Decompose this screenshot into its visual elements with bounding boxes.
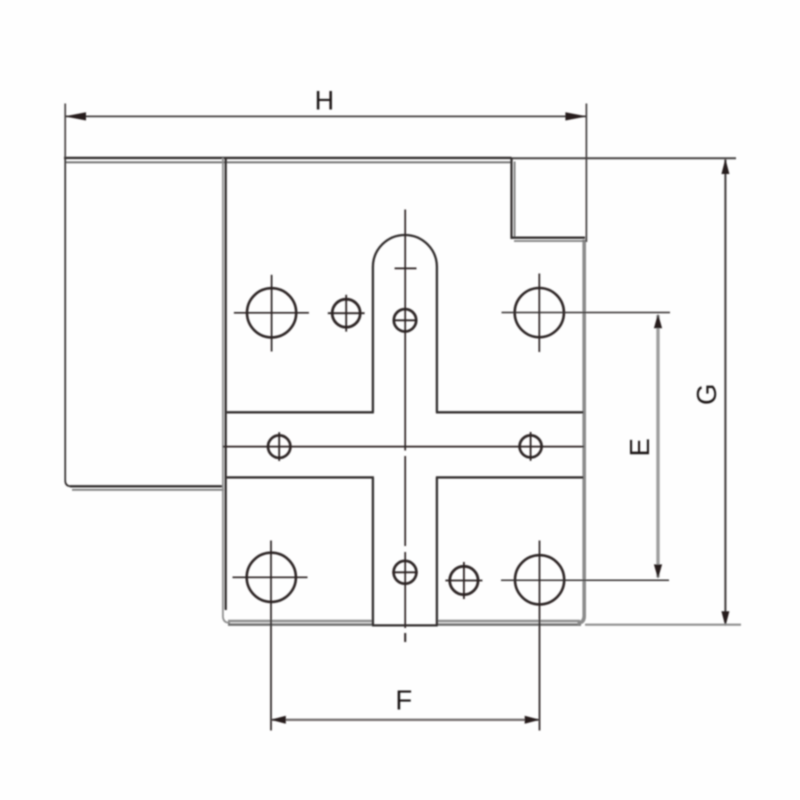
flange bottom edge	[70, 486, 224, 490]
svg-text:F: F	[395, 685, 412, 716]
vertical centerline of slot	[404, 210, 406, 643]
plate right edge	[578, 240, 585, 623]
hole BL vertical centerline + F left extension	[270, 541, 272, 731]
H label	[315, 86, 335, 116]
tongue bottom edge	[372, 624, 438, 626]
F dimension line	[271, 716, 540, 724]
E label	[624, 438, 655, 456]
central slot top arc	[373, 235, 437, 267]
top-right notch bottom edge	[511, 238, 586, 241]
small hole S4 (on centerline, lower)	[392, 561, 417, 584]
small hole S2 (band, left)	[268, 432, 290, 461]
cross band top edge	[227, 411, 584, 413]
small hole S1 (on centerline, upper)	[393, 309, 416, 331]
hole BR (large)	[515, 555, 564, 604]
G top extension line	[512, 157, 737, 159]
svg-text:E: E	[624, 438, 655, 456]
G label	[691, 384, 722, 405]
hole TL (large)	[234, 275, 309, 352]
hole BR vertical centerline + F right extension	[539, 541, 541, 731]
top-right notch left edge	[512, 158, 515, 239]
washer hole W2 (lower, right of slot)	[445, 562, 482, 599]
svg-text:G: G	[691, 384, 722, 405]
hole BL (large)	[233, 553, 308, 602]
H right extension line	[585, 104, 587, 243]
washer hole W1 (upper, next to slot)	[328, 295, 365, 332]
small hole S3 (band, right)	[520, 432, 542, 461]
flange left edge	[65, 158, 71, 486]
hole TR (large)	[515, 274, 564, 353]
G bottom extension line	[585, 624, 741, 626]
cross band bottom edge	[227, 476, 584, 478]
hole TR horizontal centerline + E top extension	[502, 312, 671, 314]
main plate left edge	[223, 158, 230, 623]
svg-text:H: H	[315, 86, 335, 116]
plate top edge	[64, 158, 512, 162]
H dimension line	[65, 112, 587, 120]
central slot left edge	[372, 267, 374, 626]
G dimension line	[721, 159, 729, 627]
E dimension line	[654, 314, 662, 579]
slot arc center tick	[395, 267, 417, 269]
central slot right edge	[436, 267, 438, 626]
F label	[395, 685, 412, 716]
hole BR horizontal centerline + E bottom extension	[501, 579, 669, 581]
band horizontal centerline	[223, 446, 584, 448]
plate bottom edge	[228, 621, 581, 625]
H left extension line	[64, 104, 66, 159]
